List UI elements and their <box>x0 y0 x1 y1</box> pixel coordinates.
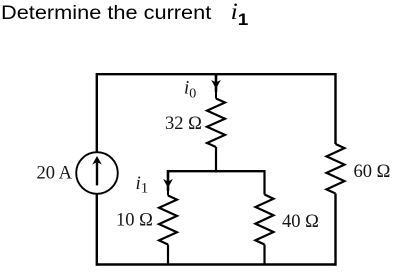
title: Determine the current i1 <box>1 0 248 25</box>
resistor 10ohm (zigzag) <box>159 196 177 245</box>
wire: left rail lower (current source to bottom corner) <box>96 194 98 266</box>
wire: 10ohm branch top lead <box>167 170 170 191</box>
resistor 32ohm (zigzag) <box>207 99 225 148</box>
wire: node bar joining 10ohm and 40ohm branches <box>168 170 265 172</box>
svg-text:32 Ω: 32 Ω <box>165 114 202 134</box>
svg-text:i1: i1 <box>136 173 149 197</box>
wire: bottom rail <box>97 263 336 265</box>
wire: left rail upper (top corner to current source) <box>96 73 98 153</box>
current source 20A (circle) <box>76 152 118 194</box>
wire: 40ohm branch bottom lead <box>263 245 265 265</box>
svg-text:20 A: 20 A <box>37 164 73 184</box>
svg-text:i0: i0 <box>184 77 196 101</box>
current source 20A arrow shaft <box>96 162 98 185</box>
current source 20A arrowhead (up) <box>92 156 102 165</box>
wire: middle branch bottom lead (32ohm to node bar) <box>215 147 217 172</box>
wire: right rail upper (top corner down to 60ohm resistor) <box>334 73 336 144</box>
wire: middle branch top lead (top rail into 32ohm) <box>215 74 218 92</box>
svg-text:60 Ω: 60 Ω <box>354 162 391 182</box>
wire: top rail from left corner to right corner <box>97 73 336 75</box>
current arrow i1 head (down, on 10ohm top lead) <box>163 179 173 188</box>
resistor 60ohm (zigzag) <box>327 144 345 194</box>
svg-text:10 Ω: 10 Ω <box>116 211 153 231</box>
wire: 40ohm branch top lead <box>263 170 265 195</box>
wire: right rail lower (60ohm resistor to bottom corner) <box>334 194 336 266</box>
svg-text:40 Ω: 40 Ω <box>282 212 319 232</box>
wire: 10ohm branch bottom lead <box>167 245 169 265</box>
resistor 40ohm (zigzag) <box>256 195 274 245</box>
current arrow i0 head (down, on 32ohm top lead) <box>211 80 221 89</box>
